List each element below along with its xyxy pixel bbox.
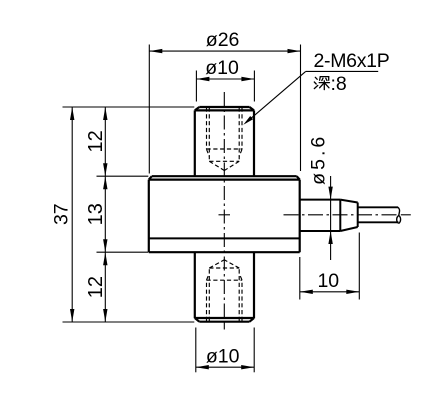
svg-text:12: 12 <box>85 276 107 298</box>
svg-text:13: 13 <box>85 203 107 225</box>
dimension D5.6 <box>330 176 332 260</box>
top boss tapped hole (hidden lines) <box>207 108 243 171</box>
svg-text::8: :8 <box>331 73 347 95</box>
dimension chain 12 13 12 <box>97 107 149 322</box>
dimension D10 top <box>196 71 254 102</box>
svg-text:10: 10 <box>317 270 339 292</box>
label 2-M6x1P with leader <box>246 71 379 123</box>
body step line <box>149 237 300 239</box>
svg-text:ø10: ø10 <box>205 57 239 79</box>
horizontal centerline <box>219 214 411 216</box>
bottom boss <box>195 252 254 322</box>
dimension D10 bottom <box>196 328 254 373</box>
svg-text:ø5.6: ø5.6 <box>307 134 329 185</box>
svg-text:ø10: ø10 <box>206 346 240 368</box>
dimension 37 <box>63 107 195 322</box>
cable break <box>397 207 401 223</box>
svg-text:2-M6x1P: 2-M6x1P <box>314 50 390 72</box>
bottom boss tapped hole (hidden lines) <box>207 260 243 321</box>
dimension D26 <box>149 45 300 174</box>
svg-text:12: 12 <box>85 130 107 152</box>
body <box>149 176 300 252</box>
cable gland <box>300 200 358 231</box>
cable <box>358 207 399 222</box>
svg-text:37: 37 <box>51 203 73 225</box>
dimension 10 <box>300 233 360 300</box>
top boss <box>195 107 254 176</box>
svg-text:ø26: ø26 <box>206 29 240 51</box>
vertical centerline <box>223 92 225 321</box>
label depth 8 (CJK glyph drawn as strokes) <box>314 77 329 90</box>
